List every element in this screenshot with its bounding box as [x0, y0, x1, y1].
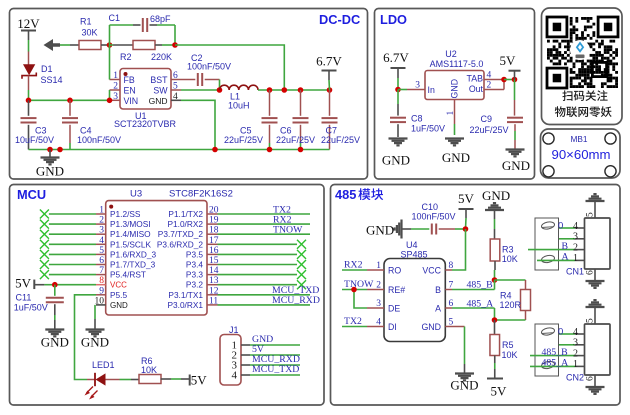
svg-text:P1.1/TX2: P1.1/TX2 — [168, 209, 203, 219]
U4 pin 1 RO — [367, 261, 401, 276]
U4 pin 6 A — [435, 299, 453, 314]
panel frame MB1 board outline — [541, 129, 621, 178]
net label MCU_RXD — [218, 295, 320, 306]
svg-text:R1: R1 — [80, 17, 92, 27]
svg-text:4: 4 — [573, 221, 578, 232]
svg-text:6: 6 — [586, 376, 596, 381]
net label TNOW (485) — [342, 279, 374, 290]
svg-text:15: 15 — [209, 256, 219, 266]
no-connect flag pin 6 — [40, 260, 96, 269]
svg-text:P3.6/RXD_2: P3.6/RXD_2 — [157, 239, 204, 249]
wire C1 right riser — [174, 25, 176, 45]
svg-text:C8: C8 — [411, 114, 423, 124]
svg-text:GND: GND — [442, 150, 470, 165]
svg-text:3: 3 — [415, 81, 420, 91]
U2 pin 3 In — [398, 81, 435, 96]
svg-text:R3: R3 — [502, 245, 514, 255]
net label RX2 — [218, 214, 311, 225]
wire B net — [452, 280, 495, 291]
svg-text:100nF/50V: 100nF/50V — [187, 62, 231, 72]
svg-text:5V: 5V — [458, 191, 475, 206]
no-connect flag pin 5 — [40, 250, 96, 259]
svg-text:16: 16 — [209, 246, 219, 256]
node C5 top junction — [267, 87, 273, 93]
U3 pin 10 GND — [95, 296, 129, 310]
svg-text:C5: C5 — [240, 126, 252, 136]
node LDO input junction — [395, 87, 401, 93]
resistor R1 30K — [79, 17, 110, 50]
svg-text:C11: C11 — [16, 293, 32, 303]
node R5-R4-A junction — [492, 317, 498, 323]
wire EN to VIN — [109, 90, 111, 100]
wire SW to L1 — [181, 89, 220, 91]
node C5 bottom junction — [267, 147, 273, 153]
wire to 5V node — [504, 79, 515, 81]
svg-text:10K: 10K — [141, 365, 157, 375]
panel frame QR box — [542, 8, 623, 125]
ground GND (C11) — [41, 330, 69, 350]
svg-text:1: 1 — [99, 206, 104, 216]
svg-text:P3.0/RX1: P3.0/RX1 — [167, 300, 203, 310]
svg-text:R2: R2 — [120, 52, 132, 62]
net label TX2 (485) — [342, 316, 367, 327]
svg-text:SCT2320TVBR: SCT2320TVBR — [114, 119, 177, 129]
svg-text:GND: GND — [36, 164, 64, 179]
svg-text:C10: C10 — [422, 202, 439, 212]
svg-text:C9: C9 — [481, 114, 493, 124]
svg-text:5: 5 — [173, 82, 178, 92]
U3 pin 16 P3.5 — [186, 246, 219, 260]
node feedback junction — [282, 87, 288, 93]
svg-text:In: In — [428, 85, 435, 95]
svg-text:19: 19 — [209, 216, 219, 226]
svg-text:P1.4/MISO: P1.4/MISO — [110, 229, 151, 239]
node 5V C11 junction — [52, 282, 58, 288]
svg-text:22uF/25V: 22uF/25V — [224, 135, 263, 145]
no-connect flag pin 1 — [40, 210, 96, 219]
svg-text:GND: GND — [450, 79, 460, 99]
op-amp U1 SCT2320TVBR body — [114, 69, 177, 130]
U3 pin 8 VCC — [96, 276, 127, 290]
resistor R6 10K — [120, 356, 190, 384]
power port 6.7V (LDO) — [383, 50, 409, 90]
svg-text:5V: 5V — [500, 53, 517, 68]
panel frame MCU — [10, 185, 325, 406]
mounting hole bottom-right — [605, 166, 616, 177]
U3 pin 3 P1.4/MISO — [96, 226, 151, 240]
capacitor C5 22uF/25V — [224, 90, 278, 150]
no-connect flag pin 14 — [218, 270, 307, 279]
svg-text:18: 18 — [209, 226, 219, 236]
U3 pin 1 P1.2/SS — [96, 206, 141, 220]
wire feedback to output node — [175, 45, 284, 90]
U3 pin 9 P5.5 — [96, 286, 127, 300]
capacitor C3 10uF/50V — [15, 100, 54, 149]
svg-text:17: 17 — [209, 236, 219, 246]
QR caption line 2 — [555, 106, 612, 117]
svg-text:90×60mm: 90×60mm — [551, 147, 610, 162]
svg-text:5V: 5V — [15, 276, 32, 291]
svg-text:VCC: VCC — [422, 266, 441, 276]
U3 pin 20 P1.1/TX2 — [168, 206, 218, 220]
node R3-R4-B junction — [492, 277, 498, 283]
capacitor C8 1uF/50V — [390, 90, 445, 138]
svg-text:7: 7 — [99, 266, 104, 276]
capacitor C4 100nF/50V — [62, 100, 121, 149]
svg-text:10uF/50V: 10uF/50V — [15, 135, 54, 145]
power port 5V (MCU) — [15, 276, 55, 291]
svg-text:SW: SW — [153, 86, 168, 96]
no-connect flag pin 13 — [218, 280, 307, 289]
J1 pin 2 5V — [232, 344, 301, 361]
wire FB riser — [109, 45, 111, 80]
no-connect flag pin 7 — [40, 270, 96, 279]
wire D1 to node — [28, 90, 30, 100]
svg-text:GND: GND — [482, 188, 510, 203]
svg-text:6.7V: 6.7V — [383, 50, 409, 65]
no-connect flag pin 17 — [218, 240, 307, 249]
J1 pin 1 GND — [232, 334, 301, 351]
svg-text:5V: 5V — [191, 373, 208, 388]
svg-text:C7: C7 — [326, 126, 338, 136]
svg-text:100nF/50V: 100nF/50V — [412, 212, 456, 222]
U3 pin 7 P5.4/RST — [96, 266, 146, 280]
U3 pin 15 P3.4 — [186, 256, 219, 270]
U4 pin 5 GND — [421, 318, 453, 333]
svg-text:1: 1 — [376, 261, 381, 271]
svg-text:6.7V: 6.7V — [316, 54, 342, 69]
svg-text:68pF: 68pF — [150, 14, 171, 24]
svg-text:GND: GND — [41, 335, 69, 350]
svg-text:485_A: 485_A — [542, 358, 569, 369]
diode D1 SS14 — [22, 52, 63, 91]
svg-text:P3.7/TXD_2: P3.7/TXD_2 — [158, 229, 204, 239]
node C4 junction — [67, 98, 73, 104]
U3 pin 13 P3.2 — [186, 276, 219, 290]
wire P5.5 to LED — [75, 295, 97, 380]
mounting hole bottom-left — [543, 166, 554, 177]
panel frame LDO — [375, 9, 535, 180]
svg-text:4: 4 — [173, 92, 178, 102]
label MB1 — [570, 134, 587, 144]
svg-text:3: 3 — [573, 338, 578, 349]
svg-text:P1.7/TXD_3: P1.7/TXD_3 — [110, 260, 156, 270]
svg-text:4: 4 — [487, 71, 492, 81]
node R2-C1 junction — [172, 42, 178, 48]
U4 pin 4 DI — [367, 318, 397, 333]
svg-text:22uF/25V: 22uF/25V — [470, 125, 509, 135]
wire VCC riser — [452, 229, 466, 270]
U4 SP485 body — [384, 240, 445, 342]
svg-text:14: 14 — [209, 266, 219, 276]
wire 5V to VCC pin — [55, 284, 96, 286]
svg-text:10K: 10K — [502, 350, 518, 360]
svg-text:B: B — [435, 285, 441, 295]
J1 pin 3 MCU_RXD — [232, 354, 301, 371]
svg-text:MCU_RXD: MCU_RXD — [272, 295, 320, 306]
mounting hole top-right — [605, 133, 616, 144]
LED LED1 — [85, 360, 120, 400]
svg-text:4: 4 — [232, 370, 238, 382]
svg-text:10K: 10K — [502, 254, 518, 264]
svg-text:C3: C3 — [35, 126, 47, 136]
U3 pin 5 P1.6/RXD_3 — [96, 246, 157, 260]
svg-text:P3.4: P3.4 — [186, 260, 203, 270]
title 485 module — [335, 187, 383, 202]
resistor R3 10K — [490, 239, 518, 280]
svg-text:3: 3 — [113, 92, 118, 102]
U1 pin 6 BST — [150, 71, 181, 85]
no-connect flag pin 16 — [218, 250, 307, 259]
svg-text:GND: GND — [366, 223, 394, 238]
no-connect flag pin 4 — [40, 240, 96, 249]
wire output rail — [258, 89, 330, 91]
ground GND (C10) — [366, 220, 411, 239]
svg-text:P5.4/RST: P5.4/RST — [110, 270, 146, 280]
svg-text:A: A — [435, 304, 441, 314]
U3 pin 18 P3.7/TXD_2 — [158, 226, 219, 240]
ground GND (U3) — [81, 330, 109, 350]
svg-text:2: 2 — [376, 281, 381, 291]
power port 6.7V (DC-DC) — [316, 54, 342, 91]
wire Out riser — [503, 80, 505, 90]
capacitor C9 22uF/25V — [470, 80, 524, 149]
svg-text:P3.5: P3.5 — [186, 249, 203, 259]
svg-text:D1: D1 — [41, 64, 53, 74]
U4 pin 2 RE# — [367, 281, 405, 296]
svg-text:1: 1 — [446, 111, 456, 116]
wire U4 GND — [445, 327, 464, 374]
U3 pin 14 P3.3 — [186, 266, 219, 280]
svg-text:4: 4 — [376, 318, 381, 328]
svg-text:3: 3 — [376, 299, 381, 309]
U4 pin 3 DE — [367, 299, 400, 314]
svg-text:R5: R5 — [502, 340, 514, 350]
power port 5V (R5) — [487, 379, 507, 399]
svg-text:SS14: SS14 — [41, 75, 63, 85]
connector J1 body — [220, 325, 241, 385]
svg-text:100nF/50V: 100nF/50V — [77, 135, 121, 145]
U1 pin 2 EN — [110, 82, 136, 96]
wire VIN rail — [29, 99, 110, 101]
inductor L1 10uH — [220, 85, 259, 110]
svg-text:U3: U3 — [130, 189, 142, 200]
svg-text:P3.2: P3.2 — [186, 280, 203, 290]
svg-text:TNOW: TNOW — [344, 279, 374, 290]
svg-text:GND: GND — [149, 96, 168, 106]
resistor R2 220K — [110, 41, 176, 63]
no-connect flag pin 15 — [218, 260, 307, 269]
svg-text:1: 1 — [573, 359, 578, 370]
svg-text:P3.3: P3.3 — [186, 270, 203, 280]
wire RE# to DE — [354, 290, 367, 309]
wire 12V to D1 — [28, 40, 30, 52]
node SW junction — [217, 87, 223, 93]
svg-text:C4: C4 — [80, 126, 92, 136]
svg-text:30K: 30K — [82, 28, 98, 38]
QR caption line 1 — [562, 90, 607, 101]
svg-text:5V: 5V — [491, 384, 508, 399]
svg-text:GND: GND — [382, 153, 410, 168]
svg-text:3: 3 — [573, 232, 578, 243]
U1 pin 1 FB — [110, 71, 135, 85]
svg-text:20: 20 — [209, 206, 219, 216]
capacitor C7 22uF/25V — [321, 90, 360, 150]
node gnd tap junction — [47, 147, 53, 153]
svg-text:5: 5 — [586, 212, 596, 217]
svg-text:A: A — [562, 252, 569, 263]
svg-text:RO: RO — [388, 266, 401, 276]
wire U3 GND pin — [94, 305, 96, 330]
svg-text:P1.5/SCLK: P1.5/SCLK — [110, 239, 152, 249]
power port 5V (R6) — [190, 373, 208, 388]
node FB-R1-R2-C1 junction — [107, 42, 113, 48]
U3 pin 17 P3.6/RXD_2 — [157, 236, 219, 250]
svg-text:6: 6 — [586, 270, 596, 275]
svg-text:22uF/25V: 22uF/25V — [276, 135, 315, 145]
U2 pin 1 GND — [446, 100, 456, 136]
svg-text:TAB: TAB — [467, 74, 484, 84]
connector CN2 — [530, 300, 610, 394]
resistor R5 10K — [490, 320, 518, 379]
svg-text:VCC: VCC — [110, 281, 127, 290]
svg-text:6: 6 — [99, 256, 104, 266]
capacitor C6 22uF/25V — [276, 90, 315, 150]
svg-text:GND: GND — [421, 322, 441, 332]
svg-text:DC-DC: DC-DC — [319, 12, 360, 27]
node VIN junction — [107, 98, 113, 104]
svg-text:5: 5 — [586, 318, 596, 323]
node TAB-Out junction — [501, 77, 507, 83]
svg-text:10: 10 — [95, 296, 105, 306]
svg-text:LED1: LED1 — [92, 360, 115, 370]
svg-text:RE#: RE# — [388, 285, 405, 295]
svg-text:485_B: 485_B — [467, 280, 494, 291]
wire C2 to SW node — [205, 80, 220, 91]
svg-text:GND: GND — [450, 378, 478, 393]
svg-text:VIN: VIN — [124, 96, 139, 106]
svg-text:8: 8 — [99, 276, 104, 286]
panel frame DC-DC — [10, 9, 368, 180]
svg-text:U2: U2 — [445, 49, 457, 59]
U2 pin 4 TAB — [467, 71, 504, 84]
svg-text:EN: EN — [124, 86, 136, 96]
ground GND (C9) — [502, 150, 530, 174]
svg-text:P1.2/SS: P1.2/SS — [110, 209, 141, 219]
U2 pin 2 Out — [469, 81, 504, 95]
svg-text:2: 2 — [573, 348, 578, 359]
svg-text:2: 2 — [113, 82, 118, 92]
svg-text:R4: R4 — [500, 291, 512, 301]
svg-text:STC8F2K16S2: STC8F2K16S2 — [169, 189, 233, 200]
U3 pin 2 P1.3/MOSI — [96, 216, 151, 230]
svg-text:P3.1/TX1: P3.1/TX1 — [168, 290, 203, 300]
svg-text:B: B — [562, 241, 569, 252]
svg-text:8: 8 — [449, 261, 454, 271]
U3 pin 6 P1.7/TXD_3 — [96, 256, 156, 270]
capacitor C10 100nF/50V — [411, 202, 466, 235]
svg-text:0: 0 — [558, 327, 563, 338]
MCU U3 STC8F2K16S2 body — [106, 189, 233, 316]
wire R4 bottom link — [495, 311, 526, 321]
svg-text:485_A: 485_A — [467, 299, 494, 310]
svg-text:485_B: 485_B — [542, 347, 569, 358]
net label MCU_TXD — [218, 285, 320, 296]
svg-text:13: 13 — [209, 276, 219, 286]
title LDO — [380, 12, 407, 27]
net label TNOW — [218, 225, 311, 236]
title MCU — [17, 187, 46, 202]
svg-text:5: 5 — [99, 246, 104, 256]
power port 12V — [17, 16, 40, 40]
svg-text:FB: FB — [124, 75, 135, 85]
svg-text:LDO: LDO — [380, 12, 407, 27]
svg-text:1: 1 — [573, 253, 578, 264]
node D1-C3 junction — [26, 98, 32, 104]
svg-text:2: 2 — [487, 81, 492, 91]
svg-text:3: 3 — [99, 226, 104, 236]
svg-text:11: 11 — [209, 296, 218, 306]
svg-text:SP485: SP485 — [401, 250, 428, 260]
svg-text:BST: BST — [150, 75, 168, 85]
svg-text:GND: GND — [110, 301, 128, 310]
J1 pin 4 MCU_TXD — [232, 364, 301, 381]
U3 pin 4 P1.5/SCLK — [96, 236, 152, 250]
node gnd tap junction 2 — [57, 147, 63, 153]
wire C1 left riser — [110, 25, 141, 45]
panel frame 485 module — [331, 185, 621, 406]
svg-text:2: 2 — [99, 216, 104, 226]
svg-text:1: 1 — [113, 71, 118, 81]
svg-text:P1.0/RX2: P1.0/RX2 — [167, 219, 203, 229]
svg-text:RX2: RX2 — [344, 260, 363, 271]
no-connect flag pin 2 — [40, 220, 96, 229]
U3 pin 11 P3.0/RX1 — [167, 296, 218, 310]
ground GND (C8) — [382, 139, 410, 168]
label 90x60mm — [551, 147, 610, 162]
svg-text:0: 0 — [558, 221, 563, 232]
resistor R4 120R — [500, 290, 531, 311]
ground GND (R3 top) — [482, 188, 510, 239]
svg-text:CN1: CN1 — [566, 267, 584, 277]
capacitor C1 68pF — [109, 13, 176, 32]
U3 pin 19 P1.0/RX2 — [167, 216, 218, 230]
wire U1 GND return — [181, 100, 215, 149]
svg-text:12V: 12V — [17, 16, 40, 31]
node TNOW junction — [351, 287, 357, 293]
capacitor C11 1uF/50V — [14, 285, 64, 330]
input port arrow — [44, 39, 61, 51]
svg-text:P1.6/RXD_3: P1.6/RXD_3 — [110, 249, 157, 259]
svg-text:10uH: 10uH — [228, 101, 250, 111]
svg-text:485: 485 — [335, 187, 356, 202]
connector CN1 — [528, 194, 610, 288]
mounting hole top-left — [543, 133, 554, 144]
svg-text:DI: DI — [388, 322, 397, 332]
ground GND (U2) — [442, 139, 470, 166]
U1 pin 4 GND — [149, 92, 181, 106]
U1 pin 5 SW — [153, 82, 181, 96]
svg-text:CN2: CN2 — [566, 373, 584, 383]
power port 5V (LDO) — [500, 53, 521, 80]
U1 pin 3 VIN — [110, 92, 139, 106]
power port 5V (485 top) — [458, 191, 475, 229]
ground GND (DC-DC) — [36, 150, 64, 179]
no-connect flag pin 3 — [40, 230, 96, 239]
net label TX2 — [218, 204, 311, 215]
svg-text:MCU_TXD: MCU_TXD — [252, 364, 299, 375]
svg-text:TX2: TX2 — [344, 316, 362, 327]
